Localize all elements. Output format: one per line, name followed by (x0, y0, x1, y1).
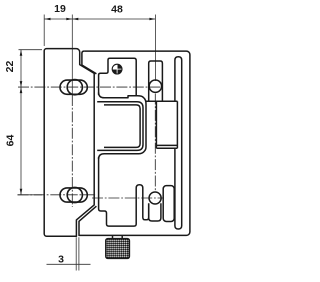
centerline latch circle horizontal (92, 197, 164, 199)
centerline vertical slots upper solid (71, 15, 73, 96)
dim line 19 (45, 18, 73, 20)
knob neck left (112, 236, 114, 239)
slot hole 2 obround (60, 188, 87, 202)
extension line 3 right (78, 237, 80, 270)
centerline slot1 horizontal (18, 86, 163, 88)
centerline vertical slots lower (71, 95, 73, 207)
right plate outline (79, 51, 190, 235)
long slot (175, 57, 182, 229)
inner wall lower with step and floor (99, 157, 149, 226)
arrow 22 top (20, 50, 23, 56)
rail section inner (104, 105, 140, 147)
svg-text:22: 22 (4, 61, 16, 73)
latch screw cup (149, 203, 161, 221)
screw head top (112, 64, 122, 74)
arrow 19 left (45, 18, 51, 21)
slot hole 1 obround (60, 80, 87, 94)
channel outer boundary (99, 93, 146, 160)
arrow 64 bottom (20, 189, 23, 195)
arrow 64 top (20, 87, 23, 93)
arrow 48 right (149, 18, 155, 21)
extension line top of 22 (19, 49, 43, 51)
extension line 3 left (75, 237, 77, 270)
extension line left of 19 (43, 15, 45, 47)
right plate top-left edge (82, 51, 97, 74)
latch bar upper (149, 61, 163, 101)
latch circle top (149, 80, 161, 92)
svg-text:48: 48 (111, 3, 123, 15)
leader line 3 (47, 263, 91, 265)
rail section outer (97, 102, 143, 151)
screw boss outline (99, 58, 137, 96)
arrow 19 right (66, 18, 72, 21)
extension line 48 right (154, 15, 156, 82)
left plate outline (44, 49, 94, 237)
guide box (156, 101, 177, 148)
extension line bottom of 64 (18, 194, 43, 196)
svg-text:19: 19 (54, 3, 66, 15)
knurled knob (106, 239, 130, 259)
right latch block (163, 186, 174, 222)
arrow 48 left (72, 18, 78, 21)
slot hole 1 circle (67, 80, 82, 95)
svg-text:64: 64 (5, 135, 17, 147)
slot hole 2 circle (67, 187, 82, 202)
knob neck right (121, 236, 123, 239)
dim line 22 (20, 50, 22, 87)
dim line 64 (20, 87, 22, 195)
centerline latch axis vertical (154, 94, 156, 193)
dim line 48 (72, 18, 155, 20)
shelf line under top section (146, 100, 177, 102)
latch circle bottom (149, 192, 161, 204)
centerline slot2 horizontal (18, 194, 97, 196)
arrow 22 bottom (20, 81, 23, 87)
svg-text:3: 3 (58, 253, 64, 265)
